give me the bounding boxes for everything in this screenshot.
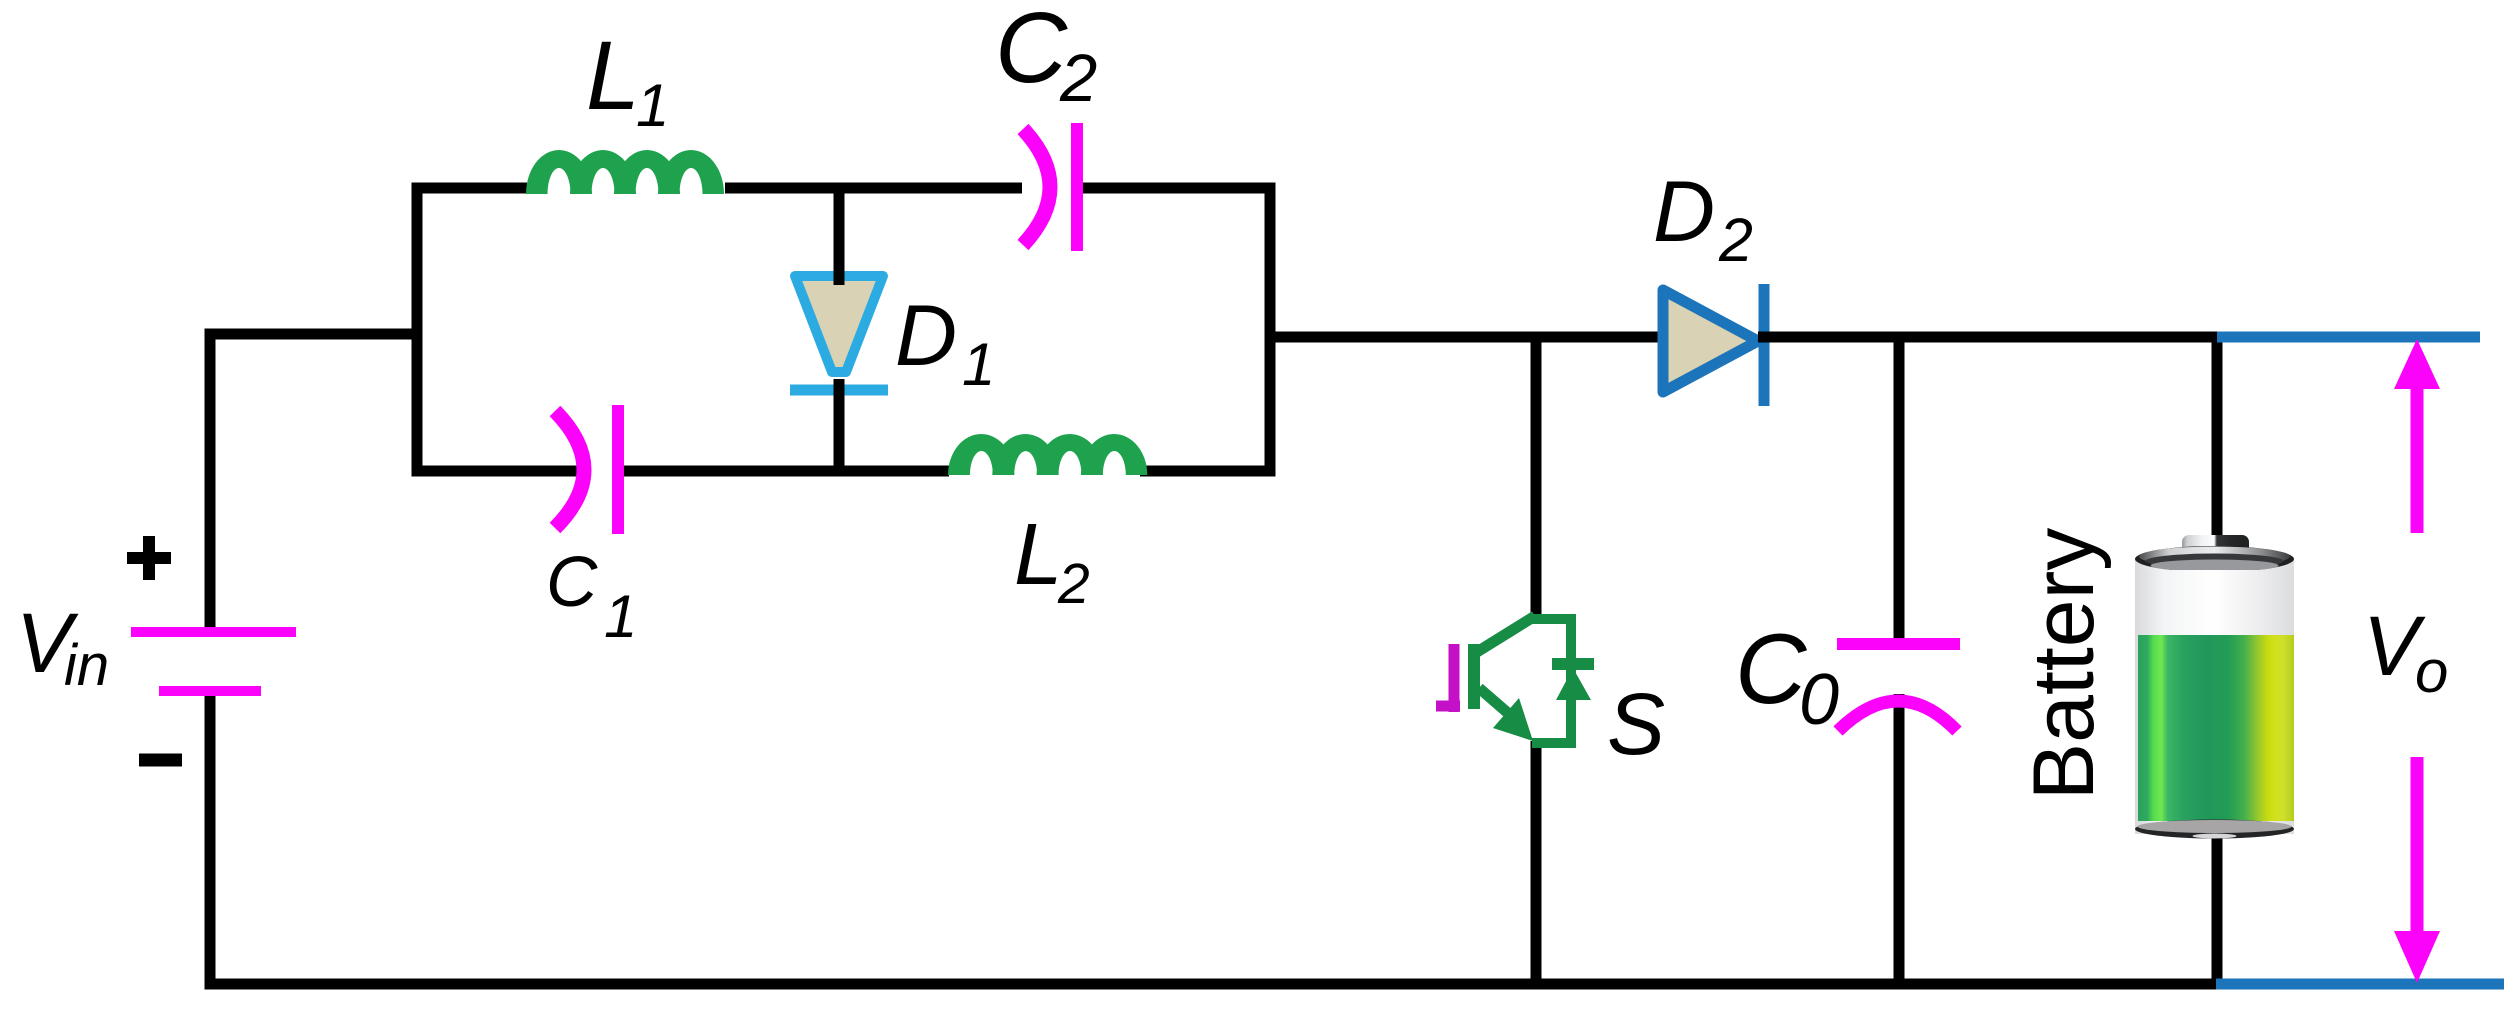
switch S IGBT bbox=[1468, 616, 1594, 743]
svg-text:C: C bbox=[1735, 613, 1808, 724]
wire loop top edge between L1 and C2 bbox=[725, 183, 1022, 194]
svg-text:D: D bbox=[1653, 164, 1715, 260]
wire switch branch upper bbox=[1531, 337, 1542, 619]
wire C0 branch upper bbox=[1894, 337, 1905, 648]
node output top rail blue bbox=[2217, 332, 2480, 343]
arrow Vo bottom bbox=[2394, 757, 2440, 983]
svg-text:C: C bbox=[995, 0, 1068, 104]
capacitor C0 bbox=[1837, 644, 1960, 731]
label D1 bbox=[895, 288, 995, 398]
svg-text:C: C bbox=[546, 543, 598, 622]
wire loop right edge bbox=[1265, 183, 1276, 477]
battery image bbox=[2135, 535, 2294, 839]
svg-text:L: L bbox=[1014, 506, 1062, 603]
label Vin plus sign bbox=[127, 536, 171, 580]
inductor L2 bbox=[948, 434, 1147, 475]
wire bottom rail bbox=[205, 979, 2217, 990]
wire input horizontal from source to loop bbox=[205, 329, 418, 340]
label Vo bbox=[2363, 599, 2448, 705]
wire loop bottom edge between C1 and L2 bbox=[624, 466, 949, 477]
svg-text:2: 2 bbox=[1057, 552, 1090, 616]
diode D1 bbox=[790, 250, 888, 400]
svg-text:Battery: Battery bbox=[2016, 528, 2112, 800]
wire loop top edge right of C2 bbox=[1077, 183, 1275, 194]
svg-text:D: D bbox=[895, 288, 957, 384]
arrow Vo top bbox=[2394, 339, 2440, 533]
wire output to D2 anode bbox=[1265, 332, 1663, 343]
diode D2 bbox=[1663, 284, 1764, 406]
label C1 bbox=[546, 543, 637, 650]
wire C0 branch lower bbox=[1894, 694, 1905, 984]
wire loop bottom edge right of L2 bbox=[1140, 466, 1275, 477]
wire battery branch upper bbox=[2212, 337, 2223, 545]
label Vin bbox=[16, 596, 109, 698]
wire Vin branch upper bbox=[205, 329, 216, 633]
label D2 bbox=[1653, 164, 1753, 274]
svg-text:o: o bbox=[2415, 638, 2448, 705]
wire Vin branch lower bbox=[205, 695, 216, 984]
svg-text:L: L bbox=[586, 21, 640, 130]
inductor L1 bbox=[526, 150, 724, 194]
switch S gate lead bbox=[1436, 644, 1460, 712]
svg-text:1: 1 bbox=[636, 72, 669, 139]
svg-text:S: S bbox=[1607, 676, 1665, 773]
label C0 bbox=[1735, 613, 1839, 740]
capacitor C2 bbox=[1023, 123, 1077, 251]
svg-text:2: 2 bbox=[1718, 206, 1753, 274]
svg-text:1: 1 bbox=[604, 583, 637, 650]
wire D2 cathode to battery junction bbox=[1758, 332, 2217, 343]
wire loop left edge and top-left segment bbox=[417, 188, 581, 471]
wire switch branch lower bbox=[1531, 741, 1542, 984]
svg-text:2: 2 bbox=[1059, 41, 1097, 116]
battery source Vin plates bbox=[131, 632, 296, 691]
label Vin minus sign bbox=[139, 754, 182, 767]
label L1 bbox=[586, 21, 669, 139]
capacitor C1 bbox=[555, 405, 618, 534]
label L2 bbox=[1014, 506, 1090, 616]
wire D1 branch lower bbox=[834, 384, 845, 471]
wire D1 branch upper bbox=[834, 188, 845, 281]
wire battery branch lower bbox=[2212, 830, 2223, 984]
svg-text:0: 0 bbox=[1799, 660, 1839, 740]
node output bottom rail blue bbox=[2216, 979, 2504, 990]
svg-text:1: 1 bbox=[962, 331, 995, 398]
label C2 bbox=[995, 0, 1097, 116]
svg-text:in: in bbox=[64, 633, 109, 698]
